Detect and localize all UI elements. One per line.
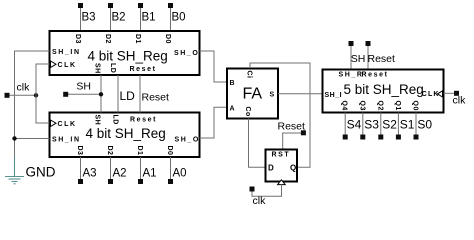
svg-text:5 bit SH_Reg: 5 bit SH_Reg xyxy=(344,82,424,97)
terminal S1 xyxy=(396,135,401,140)
svg-text:D0: D0 xyxy=(166,146,173,156)
terminal S4 xyxy=(343,135,348,140)
terminal S0 xyxy=(414,135,419,140)
wire clk to U2 CLK xyxy=(36,95,50,123)
svg-text:D3: D3 xyxy=(74,34,81,44)
svg-text:Reset: Reset xyxy=(278,121,306,133)
svg-text:CLK: CLK xyxy=(58,62,77,69)
terminal S2 xyxy=(378,135,383,140)
terminal SH xyxy=(63,92,68,97)
svg-text:D: D xyxy=(268,164,274,173)
wire B1 stub xyxy=(140,8,142,31)
svg-text:D2: D2 xyxy=(104,34,111,44)
wire FA Ci from DFF Q xyxy=(250,63,310,167)
svg-text:S4: S4 xyxy=(347,117,362,131)
svg-text:SH: SH xyxy=(94,115,101,126)
svg-text:LD: LD xyxy=(112,115,119,125)
wire GND net U1 SH_IN xyxy=(15,51,50,157)
U2 clock triangle xyxy=(51,120,57,127)
svg-text:SH_IN: SH_IN xyxy=(52,49,81,56)
wire FA Co to DFF D xyxy=(249,119,266,168)
terminal B3 xyxy=(78,3,83,8)
svg-text:CLK: CLK xyxy=(58,121,77,128)
svg-text:B2: B2 xyxy=(112,12,126,24)
terminal clk xyxy=(5,93,10,98)
register U5 5 bit SH_Reg xyxy=(323,70,444,113)
svg-text:Reset: Reset xyxy=(362,72,389,79)
terminal Reset (U5) xyxy=(366,41,371,46)
wire S2 stub xyxy=(380,113,382,135)
wire clk to U4 clock xyxy=(252,185,282,197)
wire Reset stub (U5) xyxy=(367,46,369,70)
svg-text:Q1: Q1 xyxy=(394,101,401,111)
register U1 4 bit SH_Reg (top) xyxy=(50,31,200,75)
U1 clock triangle xyxy=(51,61,57,68)
terminal clk (U5) xyxy=(454,91,459,96)
svg-text:RST: RST xyxy=(272,152,291,159)
svg-text:SH: SH xyxy=(94,63,101,74)
svg-text:GND: GND xyxy=(26,165,56,180)
svg-text:S0: S0 xyxy=(417,117,432,131)
wire S1 stub xyxy=(397,113,399,135)
wire B2 stub xyxy=(110,8,112,31)
svg-text:clk: clk xyxy=(17,82,31,94)
svg-text:A1: A1 xyxy=(143,168,157,180)
U5 clock triangle xyxy=(438,91,443,97)
wire U2 SH_O to FA A xyxy=(200,107,228,138)
svg-text:Reset: Reset xyxy=(142,92,170,104)
svg-text:SH_O: SH_O xyxy=(174,50,199,57)
wire A0 stub xyxy=(170,157,172,179)
svg-text:clk: clk xyxy=(453,95,467,107)
svg-text:SH_IN: SH_IN xyxy=(52,137,81,144)
svg-text:LD: LD xyxy=(109,63,116,73)
register U2 4 bit SH_Reg (bottom, flipped) xyxy=(50,113,200,158)
wire LD net xyxy=(117,75,119,113)
wire SH net vertical xyxy=(100,75,102,113)
svg-text:4 bit SH_Reg: 4 bit SH_Reg xyxy=(86,126,166,141)
svg-text:Ci: Ci xyxy=(246,71,253,79)
wire A1 stub xyxy=(140,157,142,179)
svg-text:S2: S2 xyxy=(382,117,397,131)
svg-text:Q2: Q2 xyxy=(376,101,383,111)
wire SH branch xyxy=(68,93,101,95)
svg-text:Co: Co xyxy=(244,107,251,117)
wire FA S to U5 SH_I xyxy=(278,93,322,95)
terminal S3 xyxy=(360,135,365,140)
wire S3 stub xyxy=(362,113,364,135)
svg-text:D3: D3 xyxy=(76,146,83,156)
wire SH stub (U5) xyxy=(350,46,352,70)
junction clk xyxy=(34,93,38,97)
svg-text:CLK: CLK xyxy=(422,91,440,98)
svg-text:D1: D1 xyxy=(134,34,141,44)
svg-text:D0: D0 xyxy=(164,34,171,44)
terminal A2 xyxy=(108,179,113,184)
svg-text:SH_R: SH_R xyxy=(339,72,364,79)
svg-text:Reset: Reset xyxy=(130,66,157,73)
svg-text:A: A xyxy=(230,106,237,113)
terminal A1 xyxy=(138,179,143,184)
svg-text:B0: B0 xyxy=(172,12,186,24)
terminal SH (U5) xyxy=(349,41,354,46)
svg-text:SH: SH xyxy=(76,80,91,92)
junction GND xyxy=(12,136,16,140)
svg-text:A0: A0 xyxy=(173,168,187,180)
wire S4 stub xyxy=(344,113,346,135)
svg-text:D1: D1 xyxy=(136,146,143,156)
svg-text:Q: Q xyxy=(290,164,296,173)
wire Reset to U4 RST xyxy=(283,133,301,149)
terminal Reset (DFF) xyxy=(301,130,306,135)
wire B0 stub xyxy=(170,8,172,31)
wire Reset net xyxy=(139,75,141,113)
flip-flop U4 RST xyxy=(266,150,298,182)
svg-text:SH_O: SH_O xyxy=(175,137,200,144)
svg-text:Reset: Reset xyxy=(368,53,396,65)
wire U2 SH_IN xyxy=(15,138,50,140)
svg-text:B3: B3 xyxy=(82,12,96,24)
svg-text:B1: B1 xyxy=(142,12,156,24)
svg-text:B: B xyxy=(230,80,237,87)
wire clk stub (U5) xyxy=(444,92,455,94)
svg-text:S1: S1 xyxy=(400,117,415,131)
U4 clock triangle xyxy=(278,180,286,185)
terminal clk (DFF) xyxy=(250,187,255,192)
svg-text:S3: S3 xyxy=(364,117,379,131)
junction SH xyxy=(99,92,103,96)
terminal B1 xyxy=(138,3,143,8)
terminal A3 xyxy=(78,179,83,184)
svg-text:S: S xyxy=(270,92,276,99)
wire U1 SH_O to FA B xyxy=(200,51,228,82)
svg-text:clk: clk xyxy=(253,195,267,205)
svg-text:4 bit SH_Reg: 4 bit SH_Reg xyxy=(88,48,168,63)
wire B3 stub xyxy=(80,8,82,31)
wire A2 stub xyxy=(110,157,112,179)
svg-text:Q4: Q4 xyxy=(341,101,348,111)
terminal A0 xyxy=(168,179,173,184)
wire clk branch xyxy=(10,94,37,96)
wire clk to U1 CLK xyxy=(36,64,50,95)
svg-text:SH_I: SH_I xyxy=(325,92,343,99)
terminal B2 xyxy=(108,3,113,8)
svg-text:Reset: Reset xyxy=(130,117,157,124)
svg-text:A3: A3 xyxy=(83,168,97,180)
svg-text:LD: LD xyxy=(120,89,136,103)
svg-text:FA: FA xyxy=(243,86,263,103)
svg-text:SH: SH xyxy=(351,53,366,65)
wire S0 stub xyxy=(415,113,417,135)
svg-text:Q3: Q3 xyxy=(358,101,365,111)
terminal B0 xyxy=(168,3,173,8)
full adder U3 FA xyxy=(227,69,278,119)
ground xyxy=(5,157,24,184)
wire A3 stub xyxy=(80,157,82,179)
svg-text:Q0: Q0 xyxy=(412,101,419,111)
svg-text:D2: D2 xyxy=(106,146,113,156)
svg-text:A2: A2 xyxy=(113,168,127,180)
